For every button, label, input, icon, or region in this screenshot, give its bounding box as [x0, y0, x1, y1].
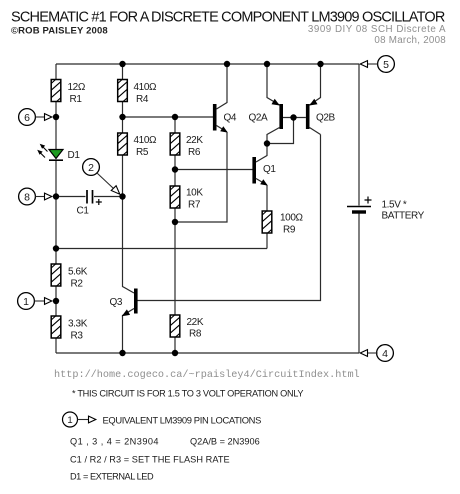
svg-text:8: 8	[24, 191, 30, 203]
svg-text:22K: 22K	[186, 135, 203, 146]
svg-text:R5: R5	[136, 147, 149, 158]
header note line 2	[374, 35, 446, 46]
wire left rail	[55, 64, 57, 353]
node R8 bottom on bottom rail	[172, 350, 178, 356]
node R9 return on left rail	[53, 245, 59, 251]
svg-text:D1: D1	[68, 150, 81, 161]
node R6/R7 junction	[172, 166, 178, 172]
legend flash rate	[70, 455, 230, 465]
copyright text	[11, 26, 108, 37]
wire base tie down to mirror node	[267, 118, 294, 144]
note voltage operation	[72, 389, 303, 399]
wire top rail V+	[56, 63, 359, 65]
svg-text:410Ω: 410Ω	[134, 135, 157, 146]
resistor R5	[118, 117, 157, 197]
svg-text:Q4: Q4	[224, 112, 237, 123]
battery B1	[347, 197, 425, 222]
svg-text:R1: R1	[70, 94, 83, 105]
pin 6 indicator	[19, 109, 52, 126]
svg-text:EQUIVALENT LM3909 PIN LOCATION: EQUIVALENT LM3909 PIN LOCATIONS	[103, 414, 262, 425]
node R7/R8 junction	[172, 219, 178, 225]
svg-text:* THIS CIRCUIT IS FOR 1.5 TO 3: * THIS CIRCUIT IS FOR 1.5 TO 3 VOLT OPER…	[72, 389, 303, 399]
url text	[54, 369, 360, 381]
svg-text:R4: R4	[136, 94, 149, 105]
svg-text:410Ω: 410Ω	[134, 82, 157, 93]
resistor R7	[170, 170, 203, 223]
header note line 1	[308, 24, 446, 35]
title text	[11, 10, 445, 26]
svg-text:http://home.cogeco.ca/~rpaisle: http://home.cogeco.ca/~rpaisley4/Circuit…	[54, 369, 360, 381]
svg-text:3.3K: 3.3K	[68, 318, 88, 329]
pin 4 indicator	[360, 345, 393, 362]
svg-text:1.5V *: 1.5V *	[382, 200, 407, 211]
svg-text:D1 = EXTERNAL LED: D1 = EXTERNAL LED	[70, 472, 154, 482]
pin 5 indicator	[360, 56, 394, 73]
svg-text:©ROB PAISLEY 2008: ©ROB PAISLEY 2008	[11, 26, 108, 37]
resistor R9	[262, 186, 303, 249]
resistor R4	[118, 64, 157, 117]
resistor R1	[51, 80, 86, 105]
node top rail Q2B emitter	[317, 61, 323, 67]
svg-text:100Ω: 100Ω	[280, 212, 303, 223]
node top rail Q4 collector	[224, 61, 230, 67]
legend led	[70, 472, 154, 482]
legend pin text	[103, 414, 262, 425]
svg-text:Q2A: Q2A	[249, 112, 269, 123]
transistor Q2A	[249, 64, 284, 144]
svg-text:Q1: Q1	[263, 164, 276, 175]
legend transistor types	[70, 436, 260, 446]
node R4/R5 junction	[119, 114, 125, 120]
svg-text:R9: R9	[283, 224, 296, 235]
svg-text:R8: R8	[189, 328, 202, 339]
svg-text:R3: R3	[71, 330, 84, 341]
svg-text:10K: 10K	[186, 187, 203, 198]
svg-text:Q2A/B = 2N3906: Q2A/B = 2N3906	[190, 436, 260, 446]
svg-text:Q1 , 3 , 4 = 2N3904: Q1 , 3 , 4 = 2N3904	[70, 436, 159, 446]
resistor R8	[170, 222, 204, 353]
node pin1 / R2 R3 junction	[53, 298, 59, 304]
node pin8 / C1 left	[53, 193, 59, 199]
svg-text:22K: 22K	[187, 317, 204, 328]
transistor Q2B	[306, 64, 336, 135]
resistor R3	[51, 316, 88, 341]
wire R9 bottom return to left rail	[56, 248, 267, 250]
node pin6 / R1 bottom	[53, 114, 59, 120]
svg-text:1: 1	[67, 415, 72, 426]
resistor R6	[170, 117, 203, 170]
transistor Q3	[110, 197, 138, 354]
wire base row R4/R5 junction to Q4 base	[123, 116, 214, 118]
wire Q2B collector to Q3 base	[138, 135, 321, 301]
svg-text:Q3: Q3	[110, 297, 123, 308]
LED D1	[37, 144, 80, 161]
svg-text:2: 2	[88, 162, 94, 174]
svg-text:R2: R2	[71, 278, 84, 289]
node Q2 base tie	[290, 114, 296, 120]
svg-text:1: 1	[23, 296, 29, 308]
transistor Q1	[252, 144, 276, 186]
svg-text:R7: R7	[188, 199, 201, 210]
node top rail Q2A emitter	[264, 61, 270, 67]
resistor R2	[51, 264, 88, 289]
pin 2 indicator	[83, 159, 120, 195]
node C1 right / pin2	[119, 193, 125, 199]
node top rail R4	[119, 61, 125, 67]
svg-text:Q2B: Q2B	[316, 112, 336, 123]
svg-text:3909 DIY 08 SCH Discrete A: 3909 DIY 08 SCH Discrete A	[308, 24, 446, 35]
pin 1 indicator	[18, 293, 52, 310]
wire bottom rail	[56, 352, 359, 354]
svg-text:BATTERY: BATTERY	[382, 211, 425, 222]
svg-text:5.6K: 5.6K	[68, 266, 88, 277]
wire R6/R7 junction to Q1 base	[175, 169, 253, 171]
node R6 top	[172, 114, 178, 120]
svg-text:5: 5	[383, 59, 389, 71]
svg-text:C1: C1	[77, 206, 90, 217]
capacitor C1	[56, 190, 123, 217]
pin 8 indicator	[19, 188, 52, 205]
wire right rail / battery column	[358, 64, 360, 353]
node current mirror / Q1 collector	[264, 140, 270, 146]
transistor Q4	[213, 64, 237, 133]
svg-text:08 March, 2008: 08 March, 2008	[374, 35, 446, 46]
svg-text:R6: R6	[188, 147, 201, 158]
svg-text:C1 / R2 / R3 = SET THE FLASH R: C1 / R2 / R3 = SET THE FLASH RATE	[70, 455, 230, 465]
node Q3 emitter on bottom rail	[119, 350, 125, 356]
wire Q2A/Q2B base tie	[283, 117, 306, 119]
legend pin symbol	[63, 412, 96, 427]
svg-text:12Ω: 12Ω	[68, 82, 86, 93]
svg-text:4: 4	[382, 348, 388, 360]
wire Q4 emitter to R7/R8 junction	[175, 132, 227, 222]
svg-text:6: 6	[24, 112, 30, 124]
